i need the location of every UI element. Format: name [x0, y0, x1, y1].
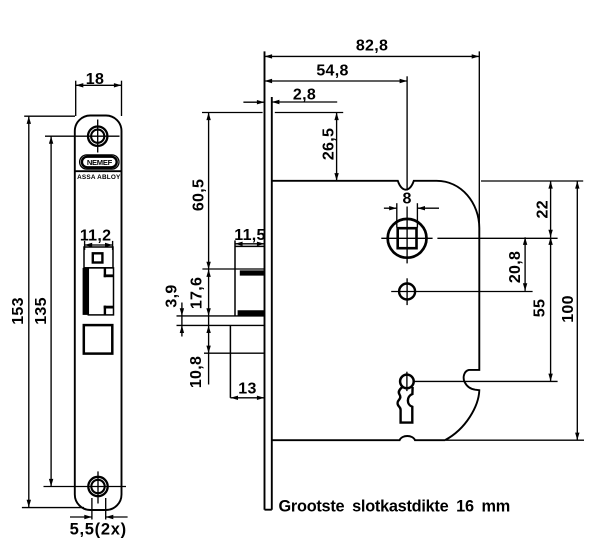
dimension 20,8: [507, 237, 527, 291]
svg-text:22: 22: [534, 200, 551, 218]
deadbolt side view: [177, 325, 265, 397]
dimension 11,5: [234, 227, 265, 246]
dimension 11,2: [80, 227, 113, 250]
dimension 3,9: [163, 284, 184, 336]
latch bolt side view: [177, 240, 265, 316]
dimension 10,8: [188, 325, 211, 388]
faceplate side view: [265, 51, 272, 509]
svg-text:135: 135: [33, 297, 50, 325]
svg-text:20,8: 20,8: [507, 251, 524, 283]
svg-text:54,8: 54,8: [316, 63, 348, 80]
lock case outline: [272, 181, 480, 440]
faceplate front view outline: [75, 116, 122, 511]
svg-text:55: 55: [532, 299, 549, 317]
NEMEF logo: [80, 155, 119, 169]
svg-text:82,8: 82,8: [356, 38, 388, 55]
svg-text:NEMEF: NEMEF: [87, 158, 113, 167]
svg-text:5,5(2x): 5,5(2x): [70, 521, 127, 539]
svg-text:153: 153: [10, 297, 27, 325]
dimension 22: [534, 181, 552, 237]
latch cutout with square hole: [84, 247, 113, 268]
dimension 60,5: [190, 113, 210, 270]
dimension 153: [10, 116, 84, 507]
svg-text:100: 100: [560, 295, 577, 323]
bottom screw hole: [44, 471, 127, 503]
keyhole: [398, 372, 558, 423]
svg-text:Grootste slotkastdikte 16 mm: Grootste slotkastdikte 16 mm: [279, 498, 511, 516]
case right extension line: [478, 51, 480, 228]
cylinder screw hole: [391, 278, 532, 305]
dimension 18: [76, 71, 122, 116]
svg-text:17,6: 17,6: [189, 277, 206, 309]
spindle hole: [388, 219, 427, 258]
dimension 82,8: [265, 38, 480, 59]
svg-text:26,5: 26,5: [320, 128, 337, 160]
dimension 13: [230, 380, 264, 400]
svg-text:8: 8: [402, 191, 411, 208]
top screw hole: [77, 120, 120, 153]
svg-text:3,9: 3,9: [163, 284, 180, 307]
dimension 100: [560, 181, 580, 440]
dimension 135: [33, 136, 77, 486]
svg-text:2,8: 2,8: [293, 87, 316, 104]
dimension 17,6: [189, 269, 211, 325]
svg-text:60,5: 60,5: [190, 179, 207, 211]
dimension 54,8: [265, 63, 408, 84]
svg-text:10,8: 10,8: [188, 356, 205, 388]
dimension 5,5(2x): [70, 498, 128, 539]
svg-text:13: 13: [238, 380, 256, 397]
case bottom extension line: [446, 439, 584, 441]
deadbolt cutout front view: [84, 325, 113, 354]
dimension 2,8: [243, 87, 337, 105]
dimension 26,5: [320, 113, 338, 181]
case top extension line: [481, 180, 583, 182]
faceplate top extension line: [202, 112, 343, 114]
dimension 55: [532, 237, 553, 381]
latch bolt front view: [83, 268, 114, 315]
svg-text:11,5: 11,5: [234, 227, 265, 244]
spindle center lines: [381, 76, 557, 263]
svg-text:ASSA ABLOY: ASSA ABLOY: [77, 174, 121, 181]
dimension 8: [384, 191, 439, 228]
